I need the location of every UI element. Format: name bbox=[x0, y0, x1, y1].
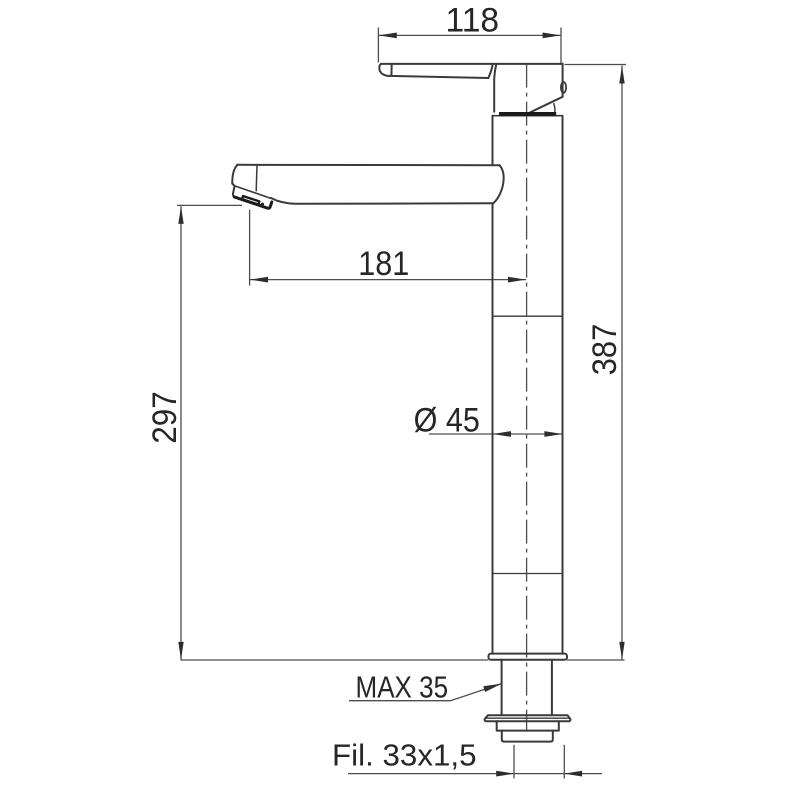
svg-text:MAX 35: MAX 35 bbox=[356, 670, 449, 705]
svg-text:181: 181 bbox=[358, 245, 409, 283]
svg-text:387: 387 bbox=[586, 324, 624, 376]
svg-text:Fil. 33x1,5: Fil. 33x1,5 bbox=[332, 738, 477, 773]
svg-text:Ø 45: Ø 45 bbox=[414, 401, 480, 439]
svg-text:297: 297 bbox=[146, 391, 184, 444]
svg-text:118: 118 bbox=[446, 2, 500, 40]
